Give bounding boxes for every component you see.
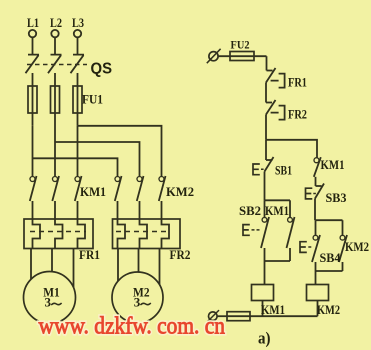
svg-text:a): a) [258,329,271,348]
svg-text:SB4: SB4 [320,251,342,265]
svg-text:L3: L3 [72,15,84,30]
svg-text:3: 3 [45,295,52,310]
svg-text:KM2: KM2 [317,303,340,317]
svg-text:FU2: FU2 [231,38,250,52]
svg-text:SB2: SB2 [239,204,261,218]
svg-text:FR2: FR2 [170,248,191,262]
svg-text:www. dzkfw. com. cn: www. dzkfw. com. cn [39,314,226,340]
svg-text:SB1: SB1 [275,164,292,178]
svg-text:QS: QS [91,61,113,78]
svg-text:3: 3 [134,295,141,310]
svg-text:KM1: KM1 [80,184,106,199]
svg-text:FR1: FR1 [288,76,307,90]
svg-text:KM2: KM2 [345,240,369,254]
svg-text:KM1: KM1 [321,158,345,172]
svg-text:KM1: KM1 [261,303,285,317]
svg-text:KM1: KM1 [265,204,289,218]
svg-text:KM2: KM2 [166,184,194,199]
svg-text:FR1: FR1 [79,248,100,262]
svg-text:L2: L2 [50,15,62,30]
svg-text:FR2: FR2 [288,108,307,122]
svg-text:FU1: FU1 [82,93,103,107]
svg-text:SB3: SB3 [326,191,347,205]
svg-text:L1: L1 [27,15,39,30]
